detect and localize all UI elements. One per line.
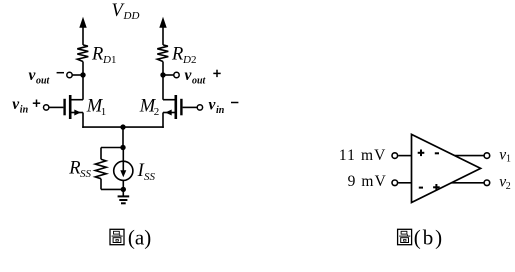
- svg-text:R: R: [68, 158, 80, 178]
- svg-text:out: out: [36, 76, 51, 87]
- svg-text:D: D: [182, 54, 191, 66]
- svg-text:DD: DD: [123, 10, 140, 22]
- svg-text:D: D: [102, 54, 111, 66]
- svg-text:1: 1: [111, 54, 117, 66]
- svg-text:1: 1: [506, 154, 511, 165]
- svg-text:9 mV: 9 mV: [348, 173, 387, 190]
- svg-text:SS: SS: [144, 171, 156, 183]
- svg-text:(a): (a): [128, 225, 151, 249]
- svg-text:2: 2: [506, 181, 511, 192]
- svg-text:R: R: [171, 45, 183, 65]
- svg-text:2: 2: [191, 54, 197, 66]
- svg-text:1: 1: [101, 106, 107, 118]
- svg-text:R: R: [91, 45, 103, 65]
- svg-text:2: 2: [154, 106, 160, 118]
- svg-text:SS: SS: [80, 168, 92, 180]
- svg-text:out: out: [192, 76, 207, 87]
- svg-text:(b): (b): [414, 225, 444, 249]
- svg-text:in: in: [216, 105, 225, 116]
- svg-text:in: in: [20, 104, 29, 115]
- svg-text:11 mV: 11 mV: [339, 147, 387, 164]
